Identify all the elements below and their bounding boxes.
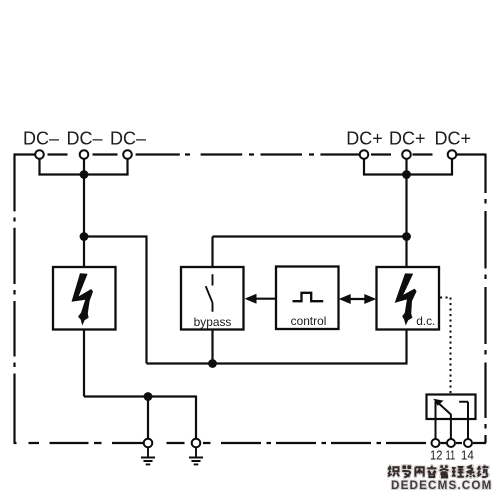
control box: [276, 267, 339, 330]
earth terminal 2: [192, 439, 201, 448]
wire: bypass box bottom stub: [211, 329, 213, 364]
svg-text:DC–: DC–: [110, 129, 146, 149]
svg-text:d.c.: d.c.: [416, 314, 435, 328]
earth terminal 1: [144, 439, 153, 448]
terminal DC+ 1: [360, 150, 369, 159]
svg-text:bypass: bypass: [194, 315, 232, 329]
lightning arrow in d.c. arrester: [395, 273, 417, 325]
arrow control to bypass: [255, 298, 277, 300]
wire: DC- bus: [38, 173, 128, 175]
relay terminal 14: [464, 439, 472, 447]
wire: DC+ terminal stubs to bus: [364, 156, 452, 174]
svg-text:11: 11: [446, 447, 456, 462]
remote signalling contact box: [427, 395, 476, 420]
wire: drop to earth terminal 1: [147, 397, 149, 440]
lightning arrow in arrester F1: [72, 273, 94, 325]
pulse symbol in control box: [293, 293, 324, 301]
contact blade 11-12: [437, 402, 451, 415]
enclosure border bottom (dash-dot): [14, 442, 487, 444]
wire: DC+ bus: [363, 173, 453, 175]
svg-text:DC–: DC–: [66, 129, 102, 149]
wire: DC- terminal stubs to bus: [40, 156, 128, 174]
double arrow control to d.c.: [348, 298, 367, 300]
svg-text:12: 12: [430, 447, 442, 462]
wire: vertical drop of DC- branch: [145, 237, 147, 364]
contact 11 lead: [450, 414, 452, 439]
svg-text:DC+: DC+: [435, 129, 472, 149]
junction DC+ branch: [402, 232, 411, 241]
contact 14 fixed contact: [459, 402, 468, 439]
svg-text:DC+: DC+: [346, 129, 383, 149]
enclosure border left (dash-dot): [13, 154, 15, 444]
wire: DC+ branch horizontal to bypass: [213, 235, 407, 237]
wire: DC- branch right: [84, 235, 148, 237]
relay terminal 12: [432, 439, 440, 447]
contact 12 lead: [435, 402, 437, 440]
junction earth rail: [144, 392, 153, 401]
terminal DC- 3: [123, 150, 132, 159]
wire: d.c. box bottom stub: [405, 329, 407, 364]
bypass box: [181, 267, 244, 330]
control line dotted from d.c. box to remote contact: [440, 298, 451, 395]
wire: earth rail horizontal: [84, 395, 196, 397]
contact blade tip: [433, 399, 443, 406]
wire: DC+ bus down to d.c. arrester top: [405, 175, 407, 268]
wire: bottom horizontal to d.c. arrester: [147, 362, 408, 364]
junction DC+ bus: [402, 170, 411, 179]
terminal DC+ 3: [448, 150, 457, 159]
junction DC- branch: [80, 232, 89, 241]
svg-text:DC+: DC+: [389, 129, 426, 149]
wire: arrester F1 bottom to earth rail: [83, 330, 85, 397]
ground symbol 2: [189, 448, 203, 465]
wire: drop to earth terminal 2: [195, 396, 197, 440]
terminal DC- 1: [35, 150, 44, 159]
switch symbol in bypass box: [206, 274, 213, 312]
terminal DC- 2: [80, 150, 89, 159]
wire: bypass box top stub up: [211, 237, 213, 268]
svg-text:DC–: DC–: [23, 129, 59, 149]
terminal DC+ 2: [402, 150, 411, 159]
svg-text:control: control: [291, 314, 327, 328]
surge arrester box F1: [53, 267, 116, 330]
watermark chinese text (drawn as vector pseudo-glyphs): [387, 464, 497, 481]
svg-text:14: 14: [461, 447, 474, 462]
wire: DC- bus down to arrester F1 top: [83, 175, 85, 268]
junction bypass bottom: [208, 359, 217, 368]
watermark dedecms: [391, 479, 500, 492]
enclosure border right (dash-dot): [484, 154, 486, 444]
enclosure border top (dash-dot): [14, 153, 486, 155]
junction DC- bus: [80, 170, 89, 179]
ground symbol 1: [141, 448, 155, 465]
d.c. arrester box: [377, 267, 440, 330]
relay terminal 11: [447, 439, 455, 447]
